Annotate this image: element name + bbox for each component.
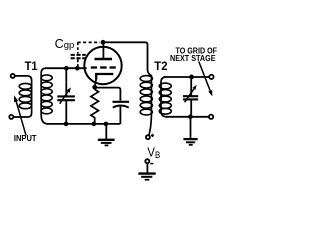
terminal: output top bbox=[209, 75, 213, 79]
tube V1 envelope bbox=[84, 47, 121, 84]
svg-text:Cgp: Cgp bbox=[55, 37, 75, 51]
terminal: input bottom bbox=[9, 115, 13, 119]
svg-text:VB: VB bbox=[147, 145, 160, 161]
wire: T2 secondary bottom rail bbox=[166, 116, 209, 118]
capacitor: T2 tank variable capacitor bbox=[183, 77, 198, 117]
node: Cgp to grid wire junction dot bbox=[75, 66, 80, 71]
ground: T2 secondary ground bbox=[183, 117, 197, 145]
transformer T1 primary winding bbox=[14, 76, 32, 117]
arrow: to-grid pointer bbox=[199, 62, 213, 97]
node: ground tap junction dot bbox=[104, 122, 109, 127]
node: plate junction dot bbox=[101, 40, 106, 45]
label TO GRID OF NEXT STAGE bbox=[170, 46, 217, 63]
node: grid tank capacitor junction dot bbox=[64, 66, 69, 71]
capacitor: T1 tank variable capacitor bbox=[57, 68, 75, 124]
wire: grid wire from T1 secondary to tube grid bbox=[45, 67, 87, 69]
capacitor Cgp dashed plates bbox=[71, 55, 86, 58]
terminal: VB minus bbox=[145, 159, 149, 163]
capacitor Cgp dashed vertical lead lower bbox=[77, 59, 79, 67]
terminal: VB plus bbox=[146, 135, 150, 139]
node: T2 tank top junction dot bbox=[189, 75, 194, 80]
transformer T2 primary winding bbox=[140, 69, 152, 135]
ground: battery ground bbox=[138, 174, 155, 180]
wire: T2 secondary top rail bbox=[164, 76, 209, 78]
arrow: input pointer bbox=[14, 95, 26, 135]
label plus sign bbox=[151, 134, 154, 137]
svg-text:INPUT: INPUT bbox=[14, 133, 37, 143]
capacitor Cgp dashed vertical lead upper bbox=[77, 42, 79, 53]
node: tank capacitor bottom junction dot bbox=[64, 122, 69, 127]
svg-text:T2: T2 bbox=[154, 59, 167, 73]
capacitor: cathode bypass capacitor bbox=[113, 102, 130, 124]
tube V1 grid (dashed) bbox=[91, 66, 116, 68]
svg-text:NEXT STAGE: NEXT STAGE bbox=[170, 53, 216, 63]
wire: plate top rail from tube plate junction to T2 primary bbox=[103, 42, 148, 70]
capacitor Cgp dashed horizontal lead bbox=[78, 41, 100, 43]
node: resistor bottom junction dot bbox=[92, 122, 97, 127]
wire: VB minus to ground bbox=[146, 163, 148, 172]
transformer T1 secondary winding bbox=[41, 68, 52, 124]
wire: cathode junction to bypass capacitor bbox=[95, 88, 121, 101]
ground: grid-circuit ground bbox=[98, 124, 115, 145]
transformer T2 secondary winding bbox=[159, 77, 171, 117]
node: T2 tank bottom junction dot bbox=[188, 114, 193, 119]
resistor: cathode bias resistor bbox=[91, 89, 99, 124]
svg-text:T1: T1 bbox=[25, 59, 38, 73]
wire: bottom grid-circuit rail bbox=[47, 123, 120, 125]
tube V1 plate bbox=[95, 42, 113, 59]
terminal: input top bbox=[11, 74, 15, 78]
label minus sign bbox=[150, 163, 153, 165]
tube V1 cathode bbox=[95, 74, 114, 87]
node: cathode junction dot bbox=[92, 85, 97, 90]
terminal: output bottom bbox=[209, 115, 213, 119]
